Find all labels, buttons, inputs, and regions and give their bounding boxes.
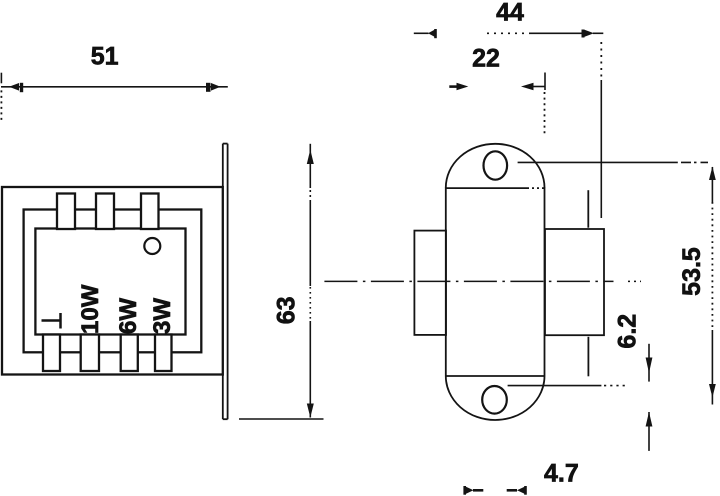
transformer front view: coil bobbin rectangle (35, 229, 185, 335)
dimension 53.5: top arrow (709, 167, 716, 181)
extension line at 44 right (dotted then solid) (600, 42, 602, 218)
dimension 6.2: upper arrow (646, 344, 653, 382)
mounting bracket inner edge above body (222, 144, 224, 187)
marker circle O on bobbin (144, 238, 160, 254)
ground symbol at pin bottom 1 (42, 313, 61, 329)
pin bottom 2 (10W) (81, 335, 99, 372)
svg-text:51: 51 (91, 43, 119, 71)
side view: core edge above right flange (587, 190, 589, 228)
pin bottom 1 (ground) (43, 335, 60, 372)
side view: right coil flange (545, 229, 604, 335)
side view: bottom mounting hole (482, 386, 507, 414)
pin top 2 (96, 194, 114, 230)
svg-text:22: 22 (472, 45, 500, 73)
svg-text:53.5: 53.5 (678, 247, 706, 296)
dimension 6.2: lower arrow (646, 412, 653, 451)
dimension 44: line segments (414, 32, 604, 34)
leader line from bottom hole (508, 385, 626, 387)
dimension 51: line (1, 86, 228, 88)
dimension 4.7: left arrow with tick (463, 486, 483, 495)
pin top 3 (141, 194, 159, 230)
dimension 44: left arrow (428, 29, 437, 38)
mounting bracket inner edge below body (222, 375, 224, 420)
dimension 51: right arrow (206, 83, 221, 92)
bracket bend line top chord (446, 187, 527, 189)
pin top 1 (57, 194, 75, 230)
center line (dash-dot) (324, 280, 641, 282)
transformer front view: inner lamination rectangle (24, 210, 202, 353)
svg-text:6W: 6W (115, 298, 142, 334)
dimension 22: left arrow (449, 83, 468, 90)
dimension 44: right arrow (582, 30, 595, 38)
dimension 63: top arrow (307, 150, 314, 165)
pin bottom 4 (3W) (155, 335, 172, 372)
side view: core edge below right flange (587, 337, 589, 377)
leader line from top hole (518, 161, 708, 163)
side view: bracket stadium outline (446, 144, 545, 420)
bracket bottom end cap (223, 418, 228, 420)
dimension 51: extension line left (0, 73, 2, 121)
dimension 51: left arrow (9, 83, 23, 92)
side view: top mounting hole (484, 151, 508, 179)
bracket top end cap (223, 143, 228, 145)
svg-text:4.7: 4.7 (544, 460, 579, 488)
dimension 63: line (309, 144, 311, 418)
dimension 63: bottom arrow (307, 404, 314, 418)
side view: left coil flange (414, 231, 446, 335)
transformer front view: lamination stack outer rectangle (2, 187, 223, 375)
dimension 22: right arrow with corner (534, 86, 546, 88)
svg-text:6.2: 6.2 (614, 314, 642, 349)
svg-text:3W: 3W (149, 298, 176, 334)
mounting bracket outer edge (front view) (227, 144, 229, 420)
svg-text:63: 63 (273, 296, 301, 324)
dimension 53.5: line (711, 167, 713, 405)
bracket bend line bottom chord (446, 375, 545, 377)
pin bottom 3 (6W) (121, 335, 138, 372)
dimension 22: corner extension (544, 73, 547, 135)
dimension 53.5: bottom arrow (709, 384, 716, 398)
svg-text:44: 44 (496, 0, 524, 27)
dimension 4.7: right arrow with tick (507, 486, 527, 495)
dimension 63: bottom extension line (239, 418, 324, 420)
svg-text:10W: 10W (77, 284, 104, 334)
